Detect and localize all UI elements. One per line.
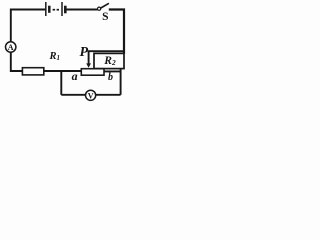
ammeter A [6,42,16,52]
resistor R1 [22,68,43,75]
svg-text:R2: R2 [103,55,116,67]
slider P [86,51,124,67]
svg-text:P: P [80,45,89,60]
wire [44,70,82,72]
wire [120,69,122,95]
svg-text:S: S [102,11,108,23]
rheostat R [81,69,104,76]
wire [60,71,62,95]
svg-text:b: b [108,72,113,83]
wire [11,10,46,43]
wire [96,94,121,96]
wire [61,94,85,96]
svg-text:R1: R1 [49,51,61,62]
wire [66,9,97,11]
battery [46,2,66,16]
voltmeter V [86,90,96,100]
resistor R2 [94,53,124,68]
wire [109,10,124,54]
svg-text:A: A [8,43,14,52]
svg-text:V: V [88,91,94,100]
wire [104,70,121,72]
switch S [98,3,109,10]
svg-text:a: a [72,69,78,83]
wire [11,52,23,71]
